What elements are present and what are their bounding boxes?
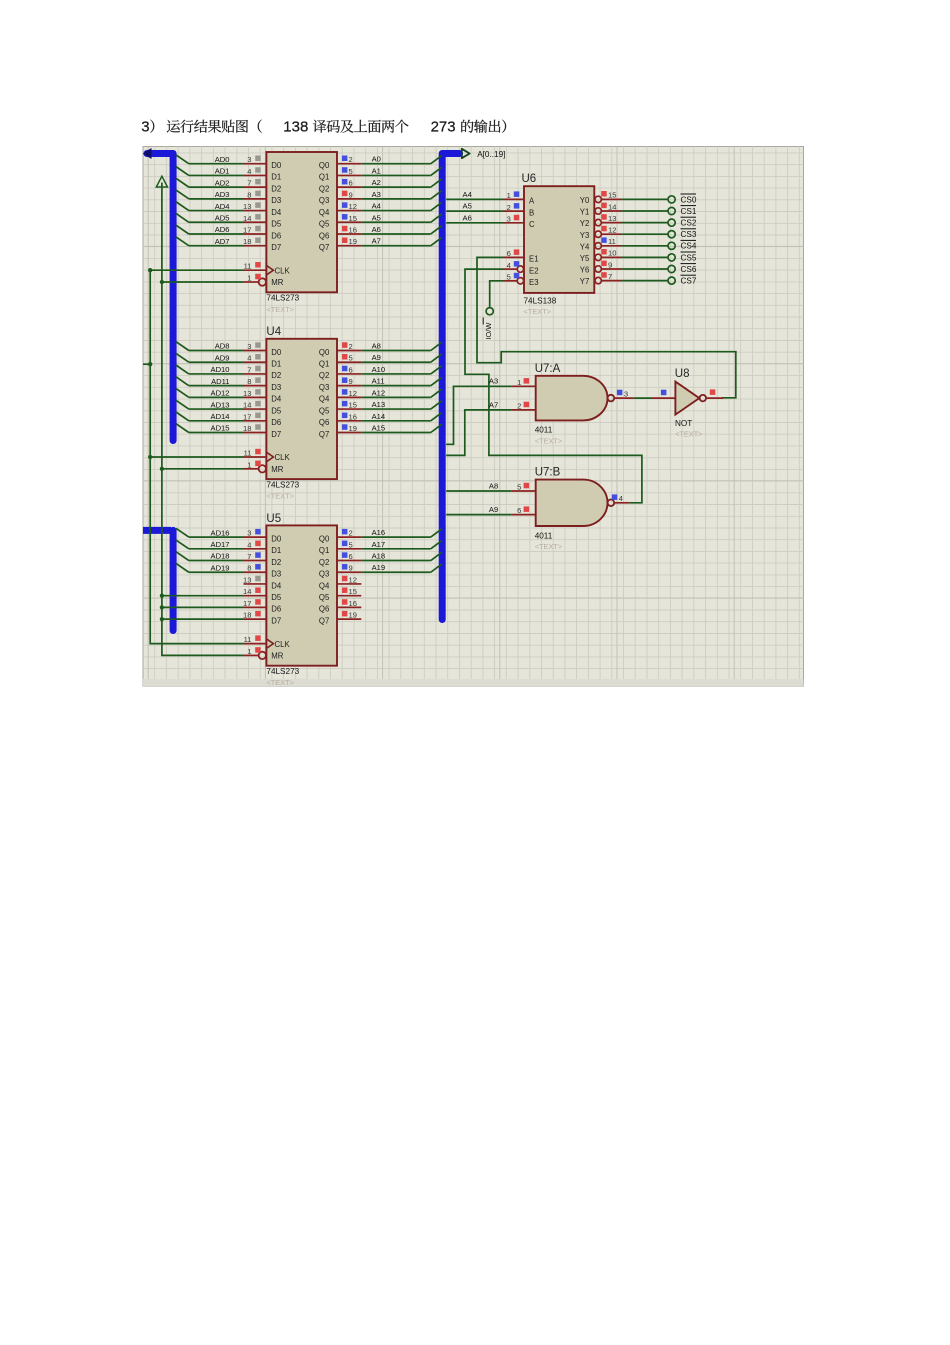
wire U6.Y0 to terminal CS0 (621, 198, 668, 200)
svg-text:7: 7 (247, 365, 251, 374)
svg-text:74LS138: 74LS138 (524, 296, 557, 305)
wire U6.Y4 to terminal CS4 (621, 245, 668, 247)
svg-text:CS7: CS7 (681, 277, 697, 286)
svg-text:AD1: AD1 (215, 167, 230, 176)
terminal CS4 (output connector) (668, 242, 675, 249)
schematic background (Proteus editor canvas) (143, 147, 804, 687)
svg-text:Y2: Y2 (580, 219, 590, 228)
terminal CS1 (output connector) (668, 207, 675, 214)
grid minor lines (143, 147, 804, 680)
svg-text:6: 6 (517, 506, 521, 515)
svg-text:CS4: CS4 (681, 242, 697, 251)
74LS273 chip U3 body (259, 152, 337, 314)
svg-text:19: 19 (349, 237, 357, 246)
svg-text:5: 5 (507, 273, 511, 282)
svg-text:<TEXT>: <TEXT> (535, 542, 563, 551)
svg-text:A5: A5 (463, 202, 472, 211)
svg-text:Y0: Y0 (580, 196, 590, 205)
wire AD15 from AD bus to U4.D7 (pin 18) (176, 424, 244, 433)
wire CLK to U3.CLK junction (148, 268, 243, 272)
pin stub U4.Q5 pin 15 (337, 401, 361, 410)
svg-text:Q2: Q2 (319, 371, 329, 380)
terminal CS0 (output connector) (668, 196, 675, 203)
svg-text:Q7: Q7 (319, 430, 329, 439)
svg-text:6: 6 (349, 552, 353, 561)
wire CLK branch to page edge (143, 363, 150, 365)
svg-text:2: 2 (507, 203, 511, 212)
pin stub U4.Q3 pin 9 (337, 377, 361, 386)
svg-text:8: 8 (247, 377, 251, 386)
pin stub U6 pin 3 (504, 215, 524, 224)
pin stub U5.D4 pin 13 (243, 575, 266, 584)
bus arrowhead right with net label A[0..19] (462, 149, 470, 158)
svg-text:A18: A18 (372, 552, 386, 561)
wire AD10 from AD bus to U4.D2 (pin 7) (176, 365, 244, 374)
pin stub U4.Q2 pin 6 (337, 365, 361, 374)
pin stub U3.D1 pin 4 (244, 167, 267, 176)
NAND gate U7:A (4011) body (535, 376, 615, 446)
pin stub U3.Q5 pin 15 (337, 214, 361, 223)
svg-text:2: 2 (349, 529, 353, 538)
svg-text:D1: D1 (271, 360, 281, 369)
svg-text:AD2: AD2 (215, 178, 230, 187)
svg-text:A1: A1 (372, 166, 381, 175)
svg-text:A14: A14 (372, 412, 386, 421)
net label CS1 (active low, overline) (681, 206, 697, 216)
svg-text:74LS273: 74LS273 (266, 294, 299, 303)
svg-text:MR: MR (271, 278, 283, 287)
pin stub U4.D1 pin 4 (244, 354, 267, 363)
svg-text:18: 18 (243, 237, 251, 246)
svg-text:D5: D5 (271, 406, 282, 415)
pin stub U8 output with state square (706, 389, 723, 398)
wire A8 from A bus to U7:B pin 5 (446, 481, 511, 491)
svg-text:Q1: Q1 (319, 360, 329, 369)
pin stub U4.D5 pin 14 (243, 401, 266, 410)
svg-text:<TEXT>: <TEXT> (266, 678, 294, 687)
svg-text:AD17: AD17 (211, 540, 230, 549)
svg-text:D6: D6 (271, 231, 281, 240)
pin stub U3.Q1 pin 5 (337, 167, 361, 176)
net label CS2 (active low, overline) (681, 217, 697, 227)
svg-text:12: 12 (608, 226, 616, 235)
svg-text:15: 15 (349, 587, 357, 596)
wire AD8 from AD bus to U4.D0 (pin 3) (176, 342, 244, 351)
wire net E2: U7:B output to U6.E2 (465, 269, 642, 503)
svg-text:11: 11 (244, 449, 252, 458)
svg-text:A4: A4 (463, 190, 472, 199)
svg-text:AD16: AD16 (211, 528, 230, 537)
bus arrowhead left (AD bus) (143, 148, 152, 159)
svg-text:Y3: Y3 (580, 231, 590, 240)
wire AD5 from AD bus to U3.D5 (pin 14) (176, 213, 244, 222)
svg-text:AD13: AD13 (211, 400, 230, 409)
svg-text:4: 4 (507, 261, 511, 270)
wire A9 from A bus to U7:B pin 6 (446, 505, 511, 515)
wire MR/high rail vertical (162, 183, 244, 656)
svg-text:A15: A15 (372, 424, 386, 433)
pin stub U5.Q6 pin 16 (337, 599, 361, 608)
svg-text:MR: MR (271, 652, 283, 661)
svg-text:9: 9 (349, 564, 353, 573)
svg-text:A5: A5 (372, 213, 381, 222)
svg-text:AD11: AD11 (211, 377, 229, 386)
wire A19 from U5.Q3 (pin 9) to A bus (361, 563, 442, 572)
svg-text:1: 1 (247, 647, 251, 656)
net label CS4 (active low, overline) (681, 240, 697, 250)
pin stub U6.Y5 pin 10 with bubble (595, 249, 621, 261)
svg-text:74LS273: 74LS273 (266, 667, 299, 676)
pin stub U4.D6 pin 17 (243, 412, 266, 421)
svg-text:D1: D1 (271, 173, 281, 182)
junction CLK branch (148, 362, 152, 366)
pin stub U6 pin 2 (504, 203, 524, 212)
svg-text:18: 18 (243, 611, 251, 620)
wire A4 from A bus to U6 input (446, 190, 504, 199)
svg-text:A2: A2 (372, 178, 381, 187)
wire A7 from U3.Q7 (pin 19) to A bus (361, 237, 442, 246)
svg-text:4011: 4011 (535, 426, 553, 435)
svg-text:6: 6 (507, 249, 511, 258)
svg-text:3: 3 (247, 529, 251, 538)
svg-text:13: 13 (243, 202, 251, 211)
pin stub U5.Q7 pin 19 (337, 611, 361, 620)
terminal CS5 (output connector) (668, 254, 675, 261)
svg-text:3: 3 (507, 215, 511, 224)
svg-text:CLK: CLK (275, 640, 291, 649)
terminal IO/W (input connector to U6.E3) (486, 308, 493, 315)
svg-text:8: 8 (247, 564, 251, 573)
svg-text:3: 3 (141, 119, 149, 136)
svg-text:4: 4 (619, 494, 623, 503)
wire high-rail to U5.D7 (pin 18) with junction (160, 617, 244, 621)
wire CLK to U4.CLK junction (148, 455, 243, 459)
svg-text:Q4: Q4 (319, 581, 330, 590)
svg-text:Y1: Y1 (580, 208, 590, 217)
grid major lines (143, 147, 804, 680)
svg-text:AD14: AD14 (211, 412, 230, 421)
svg-text:D7: D7 (271, 430, 281, 439)
svg-text:11: 11 (244, 262, 252, 271)
svg-text:D2: D2 (271, 558, 281, 567)
svg-text:15: 15 (349, 214, 357, 223)
pin stub U3.Q2 pin 6 (337, 179, 361, 188)
svg-text:AD5: AD5 (215, 213, 230, 222)
svg-text:12: 12 (349, 389, 357, 398)
svg-text:A12: A12 (372, 388, 386, 397)
svg-text:A3: A3 (489, 377, 498, 386)
pin stub U6 pin 1 (504, 191, 524, 200)
svg-text:AD7: AD7 (215, 237, 230, 246)
svg-text:2: 2 (349, 342, 353, 351)
svg-text:A: A (529, 197, 535, 206)
svg-text:12: 12 (349, 575, 357, 584)
net label CS7 (active low, overline) (681, 275, 697, 285)
net label CS0 (active low, overline) (681, 194, 697, 204)
svg-text:<TEXT>: <TEXT> (524, 307, 552, 316)
net label CS3 (active low, overline) (681, 229, 697, 239)
svg-text:Q0: Q0 (319, 534, 330, 543)
svg-text:A0: A0 (372, 155, 381, 164)
wire AD18 from AD bus to U5.D2 (pin 7) (176, 552, 244, 561)
pin stub U7:A output pin 3 (614, 389, 633, 398)
svg-text:CS5: CS5 (681, 253, 697, 262)
svg-text:CLK: CLK (275, 266, 291, 275)
wire AD1 from AD bus to U3.D1 (pin 4) (176, 167, 244, 176)
pin stub U4.Q1 pin 5 (337, 354, 361, 363)
wire A1 from U3.Q1 (pin 5) to A bus (361, 166, 442, 175)
svg-text:B: B (529, 208, 534, 217)
svg-text:A6: A6 (463, 213, 472, 222)
wire AD11 from AD bus to U4.D3 (pin 8) (176, 377, 244, 386)
svg-text:4: 4 (247, 354, 251, 363)
svg-text:D6: D6 (271, 418, 281, 427)
pin stub 1 U7:A input A3 (512, 378, 536, 387)
svg-text:CS6: CS6 (681, 265, 697, 274)
wire U6.Y6 to terminal CS6 (621, 268, 668, 270)
wire high-rail to U5.D5 (pin 14) with junction (160, 594, 244, 598)
svg-text:14: 14 (243, 214, 251, 223)
pin stub U3.CLK pin 11 (244, 262, 267, 271)
svg-text:Q5: Q5 (319, 593, 330, 602)
svg-text:18: 18 (243, 424, 251, 433)
wire AD9 from AD bus to U4.D1 (pin 4) (176, 353, 244, 362)
svg-text:A16: A16 (372, 528, 386, 537)
svg-text:13: 13 (243, 389, 251, 398)
pin stub U4.D7 pin 18 (243, 424, 266, 433)
pin stub U3.D0 pin 3 (244, 155, 267, 164)
svg-text:Q7: Q7 (319, 616, 329, 625)
svg-text:D6: D6 (271, 605, 281, 614)
bus AD[0..15] (left vertical bus, upper) (147, 154, 173, 441)
wire CLK rail vertical (net CLK) (150, 270, 243, 643)
svg-text:AD3: AD3 (215, 190, 230, 199)
wire AD16 from AD bus to U5.D0 (pin 3) (176, 528, 244, 537)
pin stub U6.Y1 pin 14 with bubble (595, 202, 621, 214)
svg-text:13: 13 (243, 575, 251, 584)
pin stub U5.D2 pin 7 (244, 552, 267, 561)
svg-text:U4: U4 (266, 326, 281, 338)
svg-text:7: 7 (247, 552, 251, 561)
wire A12 from U4.Q4 (pin 12) to A bus (361, 388, 442, 397)
74LS273 chip U5 body (259, 525, 337, 687)
pin stub U3.D3 pin 8 (244, 190, 267, 199)
pin stub U4.Q7 pin 19 (337, 424, 361, 433)
pin stub U4.Q4 pin 12 (337, 389, 361, 398)
svg-text:14: 14 (243, 587, 251, 596)
wire A5 from U3.Q5 (pin 15) to A bus (361, 213, 442, 222)
svg-text:Q1: Q1 (319, 173, 329, 182)
svg-text:D1: D1 (271, 546, 281, 555)
wire A16 from U5.Q0 (pin 2) to A bus (361, 528, 442, 537)
svg-text:D4: D4 (271, 581, 282, 590)
wire AD17 from AD bus to U5.D1 (pin 4) (176, 540, 244, 549)
pin stub U6.Y6 pin 9 with bubble (595, 260, 621, 272)
svg-text:A17: A17 (372, 540, 386, 549)
svg-text:<TEXT>: <TEXT> (266, 492, 294, 501)
svg-text:7: 7 (608, 272, 612, 281)
pin stub U5.D5 pin 14 (243, 587, 266, 596)
svg-text:D0: D0 (271, 534, 282, 543)
pin stub U5.Q4 pin 12 (337, 575, 361, 584)
svg-text:4: 4 (247, 540, 251, 549)
svg-text:Q2: Q2 (319, 184, 329, 193)
wire A7 from A bus to U7:A pin 2 (446, 400, 511, 455)
svg-text:Q0: Q0 (319, 161, 330, 170)
wire A18 from U5.Q2 (pin 6) to A bus (361, 552, 442, 561)
svg-text:17: 17 (243, 599, 251, 608)
NAND gate U7:B (4011) body (535, 480, 615, 552)
svg-text:Q4: Q4 (319, 395, 330, 404)
pin stub U3.D4 pin 13 (243, 202, 266, 211)
svg-text:AD12: AD12 (211, 389, 230, 398)
svg-text:11: 11 (244, 635, 252, 644)
svg-text:3: 3 (624, 389, 628, 398)
wire A13 from U4.Q5 (pin 15) to A bus (361, 400, 442, 409)
svg-text:U7:A: U7:A (535, 363, 561, 375)
svg-text:Q3: Q3 (319, 570, 329, 579)
svg-text:4: 4 (247, 167, 251, 176)
svg-text:IO/W: IO/W (484, 323, 493, 340)
wire A0 from U3.Q0 (pin 2) to A bus (361, 155, 442, 164)
svg-text:A9: A9 (372, 353, 381, 362)
svg-text:Q6: Q6 (319, 605, 329, 614)
svg-text:Y4: Y4 (580, 242, 590, 251)
pin stub U5.Q5 pin 15 (337, 587, 361, 596)
svg-text:A7: A7 (372, 237, 381, 246)
terminal CS6 (output connector) (668, 265, 675, 272)
svg-text:19: 19 (349, 424, 357, 433)
74LS273 chip U4 body (259, 339, 337, 501)
svg-text:A8: A8 (489, 481, 498, 490)
pin stub U5.D6 pin 17 (243, 599, 266, 608)
svg-text:15: 15 (349, 401, 357, 410)
svg-text:11: 11 (608, 237, 616, 246)
wire A11 from U4.Q3 (pin 9) to A bus (361, 377, 442, 386)
svg-text:D2: D2 (271, 371, 281, 380)
svg-text:MR: MR (271, 465, 283, 474)
svg-text:5: 5 (517, 483, 521, 492)
svg-text:D4: D4 (271, 208, 282, 217)
pin stub U4.MR pin 1 (244, 460, 261, 469)
svg-text:9: 9 (349, 190, 353, 199)
svg-text:CS2: CS2 (681, 219, 697, 228)
pin stub U4.Q0 pin 2 (337, 342, 361, 351)
svg-text:A10: A10 (372, 365, 386, 374)
pin stub U6 pin 4 (504, 261, 519, 270)
svg-text:CLK: CLK (275, 453, 291, 462)
wire A5 from A bus to U6 input (446, 202, 504, 211)
svg-text:CS1: CS1 (681, 207, 697, 216)
svg-text:<TEXT>: <TEXT> (535, 436, 563, 445)
pin stub U8 input with state square (652, 390, 676, 398)
heading text: 3）运行结果贴图（138译码及上面两个273的输出） (141, 119, 506, 136)
svg-text:5: 5 (349, 354, 353, 363)
svg-text:A13: A13 (372, 400, 386, 409)
bus A[0..19] (center vertical bus) (442, 154, 459, 620)
pin stub U3.D5 pin 14 (243, 214, 266, 223)
pin stub U5.D3 pin 8 (244, 564, 267, 573)
NOT gate U8 body (675, 382, 706, 439)
wire net E3: terminal IO/W to U6.E3 (490, 281, 504, 308)
net label CS5 (active low, overline) (681, 252, 697, 262)
svg-text:Q6: Q6 (319, 418, 329, 427)
net label CS6 (active low, overline) (681, 264, 697, 274)
svg-text:AD0: AD0 (215, 155, 230, 164)
svg-text:Q3: Q3 (319, 196, 329, 205)
svg-text:CS3: CS3 (681, 230, 697, 239)
svg-text:273: 273 (431, 119, 456, 136)
pin stub U6.Y0 pin 15 with bubble (595, 191, 621, 203)
svg-text:Q2: Q2 (319, 558, 329, 567)
svg-text:Q5: Q5 (319, 406, 330, 415)
svg-text:9: 9 (608, 260, 612, 269)
svg-text:1: 1 (247, 460, 251, 469)
svg-text:13: 13 (608, 214, 616, 223)
svg-text:74LS273: 74LS273 (266, 480, 299, 489)
svg-text:D3: D3 (271, 383, 281, 392)
svg-text:A3: A3 (372, 190, 381, 199)
svg-text:Q3: Q3 (319, 383, 329, 392)
pin stub U4.D0 pin 3 (244, 342, 267, 351)
svg-text:6: 6 (349, 179, 353, 188)
pin stub U6.Y3 pin 12 with bubble (595, 226, 621, 238)
svg-text:AD4: AD4 (215, 202, 230, 211)
wire AD12 from AD bus to U4.D4 (pin 13) (176, 389, 244, 398)
pin stub U5.Q1 pin 5 (337, 540, 361, 549)
wire A17 from U5.Q1 (pin 5) to A bus (361, 540, 442, 549)
wire U6.Y7 to terminal CS7 (621, 280, 668, 282)
wire U6.Y2 to terminal CS2 (621, 222, 668, 224)
wire net E1: U8 output loop to U6.E1 (477, 257, 736, 397)
pin stub U4.CLK pin 11 (244, 449, 267, 458)
wire A9 from U4.Q1 (pin 5) to A bus (361, 353, 442, 362)
svg-text:D3: D3 (271, 570, 281, 579)
pin stub U5.MR pin 1 (244, 647, 261, 656)
pin stub U3.Q3 pin 9 (337, 190, 361, 199)
wire U7:A output to U8 input (633, 397, 651, 399)
svg-text:15: 15 (608, 191, 616, 200)
svg-text:<TEXT>: <TEXT> (266, 305, 294, 314)
svg-text:14: 14 (608, 202, 616, 211)
wire A6 from U3.Q6 (pin 16) to A bus (361, 225, 442, 234)
wire U6.Y5 to terminal CS5 (621, 256, 668, 258)
svg-text:Q4: Q4 (319, 208, 330, 217)
pin stub U6 pin 5 (504, 273, 519, 282)
svg-text:A7: A7 (489, 400, 498, 409)
wire AD4 from AD bus to U3.D4 (pin 13) (176, 202, 244, 211)
svg-text:10: 10 (608, 249, 616, 258)
svg-text:17: 17 (243, 225, 251, 234)
wire high-rail to U3.MR junction (160, 280, 244, 284)
svg-text:C: C (529, 220, 535, 229)
pin stub U5.Q3 pin 9 (337, 564, 361, 573)
svg-text:A4: A4 (372, 202, 381, 211)
svg-text:Q1: Q1 (319, 546, 329, 555)
svg-text:U8: U8 (675, 368, 690, 380)
svg-text:AD10: AD10 (211, 365, 230, 374)
wire AD19 from AD bus to U5.D3 (pin 8) (176, 563, 244, 572)
svg-text:16: 16 (349, 599, 357, 608)
pin stub 2 U7:A input A7 (512, 401, 536, 410)
svg-text:14: 14 (243, 401, 251, 410)
svg-text:A19: A19 (372, 563, 386, 572)
svg-text:1: 1 (507, 191, 511, 200)
wire A10 from U4.Q2 (pin 6) to A bus (361, 365, 442, 374)
pin stub U5.D1 pin 4 (244, 540, 267, 549)
svg-text:A9: A9 (489, 505, 498, 514)
pin stub U3.D2 pin 7 (244, 179, 267, 188)
